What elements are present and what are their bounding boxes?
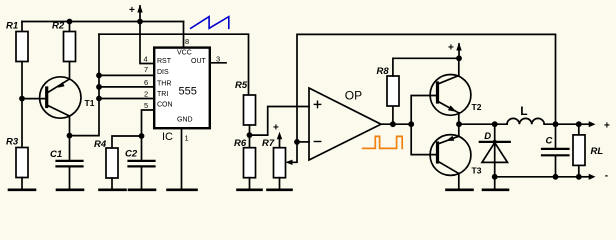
node RL bottom junction bbox=[576, 174, 582, 180]
wire pin 7 stub bbox=[99, 74, 153, 76]
node R5/R6 junction bbox=[247, 132, 253, 138]
svg-text:OP: OP bbox=[345, 89, 362, 103]
square wave icon bbox=[363, 136, 403, 148]
resistor R2 bbox=[64, 22, 76, 79]
resistor RL bbox=[573, 124, 585, 177]
wire pin 5 to R4/C2 bbox=[142, 110, 154, 160]
svg-text:+: + bbox=[273, 123, 279, 134]
inductor L bbox=[507, 118, 579, 124]
wire pin 2 stub bbox=[99, 98, 153, 100]
svg-text:DIS: DIS bbox=[157, 69, 169, 76]
transistor T3 bbox=[430, 124, 471, 189]
svg-text:VCC: VCC bbox=[177, 50, 192, 57]
svg-text:C: C bbox=[546, 136, 553, 147]
svg-text:OUT: OUT bbox=[191, 58, 207, 65]
capacitor C (output) bbox=[542, 124, 569, 177]
node T2 collector supply junction bbox=[456, 55, 462, 61]
node diode bottom junction bbox=[492, 174, 498, 180]
power arrow T2 collector bbox=[456, 43, 461, 59]
svg-text:2: 2 bbox=[144, 90, 148, 99]
output arrow - bbox=[579, 174, 596, 180]
wire emitter node to L bbox=[459, 123, 507, 125]
node supply top-left junction bbox=[137, 19, 143, 25]
svg-text:5: 5 bbox=[144, 101, 148, 110]
svg-text:R4: R4 bbox=[94, 139, 107, 150]
svg-text:+: + bbox=[448, 42, 454, 53]
node pin6 junction bbox=[96, 84, 102, 90]
wire pin 6 stub bbox=[99, 86, 153, 88]
svg-text:R3: R3 bbox=[6, 137, 19, 148]
svg-text:T3: T3 bbox=[472, 166, 482, 176]
wire pin 1 GND bbox=[181, 128, 183, 189]
svg-text:R7: R7 bbox=[262, 138, 275, 149]
transistor T1 bbox=[40, 77, 81, 136]
svg-text:GND: GND bbox=[177, 117, 193, 124]
svg-text:R2: R2 bbox=[52, 21, 65, 32]
node - input junction bbox=[294, 139, 300, 145]
ground diode bbox=[483, 177, 508, 190]
svg-text:R5: R5 bbox=[235, 80, 248, 91]
wire VCC drop to pin 8 bbox=[183, 22, 185, 48]
svg-text:TRI: TRI bbox=[157, 91, 168, 98]
wire - input stub bbox=[297, 141, 309, 143]
svg-text:-: - bbox=[605, 171, 608, 182]
svg-text:RL: RL bbox=[591, 146, 604, 157]
wire T1 emitter to bus bbox=[70, 34, 100, 135]
ground C1 bbox=[57, 189, 83, 192]
ground IC pin1 bbox=[168, 189, 197, 192]
sawtooth waveform icon bbox=[191, 17, 229, 29]
svg-text:T2: T2 bbox=[472, 102, 482, 112]
resistor R7 potentiometer bbox=[274, 136, 286, 189]
svg-text:4: 4 bbox=[144, 55, 148, 64]
svg-text:THR: THR bbox=[157, 81, 171, 88]
resistor R4 bbox=[106, 136, 142, 189]
node C bottom junction bbox=[553, 174, 559, 180]
wire bottom output rail bbox=[495, 176, 579, 178]
resistor R1 bbox=[16, 22, 28, 148]
ground T3 bbox=[447, 189, 473, 192]
ground R6 bbox=[238, 189, 262, 192]
diode D bbox=[480, 124, 510, 177]
node base feed junction bbox=[408, 121, 414, 127]
capacitor C1 bbox=[57, 136, 83, 189]
wire T1 base bbox=[22, 98, 45, 100]
node pin2 junction bbox=[96, 96, 102, 102]
wire top supply rail bbox=[22, 21, 184, 23]
svg-text:7: 7 bbox=[144, 65, 148, 74]
svg-text:R1: R1 bbox=[6, 21, 18, 32]
svg-text:CON: CON bbox=[157, 102, 173, 109]
svg-text:1: 1 bbox=[185, 134, 189, 143]
node R4/C2 junction bbox=[139, 133, 145, 139]
svg-text:D: D bbox=[484, 131, 491, 142]
wire op-amp output bbox=[381, 123, 411, 125]
wire pin 3 stub bbox=[211, 62, 226, 64]
node RL top junction bbox=[576, 121, 582, 127]
wire R5/R6 node to op-amp + input bbox=[250, 107, 310, 136]
svg-text:555: 555 bbox=[179, 86, 197, 98]
node T2/T3 emitter junction bbox=[456, 121, 462, 127]
svg-text:C1: C1 bbox=[50, 149, 62, 160]
wire bus top to R5 bbox=[99, 34, 249, 95]
node T1 base junction bbox=[19, 96, 25, 102]
transistor T2 bbox=[430, 58, 471, 124]
svg-text:IC: IC bbox=[162, 131, 173, 143]
node R2 top junction bbox=[67, 19, 73, 25]
resistor R3 bbox=[16, 148, 28, 189]
node diode top junction bbox=[492, 121, 498, 127]
wire pin 4 to supply bbox=[140, 22, 153, 64]
ground R3 bbox=[9, 189, 35, 192]
node R8 bottom junction bbox=[390, 121, 396, 127]
wire R7 wiper bbox=[285, 142, 297, 165]
svg-text:R8: R8 bbox=[377, 66, 390, 77]
capacitor C2 bbox=[129, 161, 155, 189]
resistor R8 bbox=[387, 58, 459, 124]
op-amp OP bbox=[309, 88, 381, 160]
svg-text:L: L bbox=[520, 104, 527, 118]
svg-text:8: 8 bbox=[185, 37, 189, 46]
power arrow +V top left bbox=[137, 5, 142, 22]
node C top junction bbox=[553, 121, 559, 127]
svg-text:T1: T1 bbox=[85, 98, 95, 108]
svg-text:+: + bbox=[129, 5, 135, 16]
svg-text:+: + bbox=[604, 120, 610, 131]
output arrow + bbox=[579, 121, 596, 127]
node T1 emitter junction bbox=[67, 133, 73, 139]
node pin7 junction bbox=[96, 73, 102, 79]
ground C2 bbox=[129, 189, 155, 192]
svg-text:RST: RST bbox=[157, 58, 172, 65]
ground R4 bbox=[100, 189, 126, 192]
power arrow R7 top bbox=[277, 132, 282, 140]
wire feedback net output to - input bbox=[297, 34, 556, 141]
svg-text:R6: R6 bbox=[234, 138, 247, 149]
wire base feed T2/T3 bbox=[411, 96, 436, 155]
svg-text:6: 6 bbox=[144, 78, 148, 87]
svg-text:C2: C2 bbox=[125, 149, 138, 160]
resistor R6 bbox=[244, 135, 256, 189]
ground R7 bbox=[268, 189, 292, 192]
resistor R5 bbox=[244, 95, 256, 135]
op-amp IC 555 box bbox=[154, 48, 210, 129]
